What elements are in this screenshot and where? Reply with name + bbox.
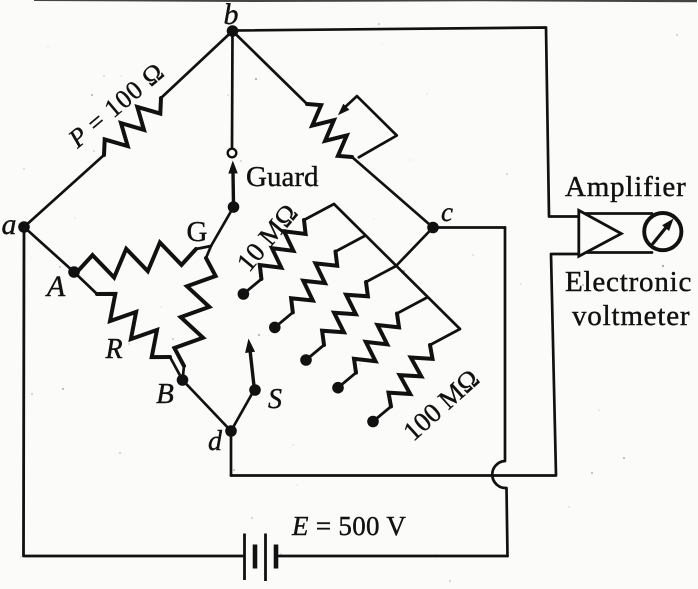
wire b to variable resistor [233,31,308,104]
wire b top run to amplifier input [233,28,578,217]
scan streak at top edge [34,0,697,2]
resistor A-G (guard network) [78,243,196,278]
svg-text:Guard: Guard [246,161,319,193]
return wire d to amplifier lower input [231,254,578,476]
adjustment arrow of variable resistor [343,96,397,157]
standard resistor 4 of bank (10-100 Mohm) [332,298,427,394]
node d [225,425,237,437]
node c [427,222,439,234]
standard resistor 2 of bank (10-100 Mohm) [269,236,366,334]
wire c to bus [396,228,433,267]
bottom wire right of battery [279,555,508,558]
guard wire from b down [231,31,234,148]
guard switch blade arrow [231,172,235,205]
resistor G-B (guard network) [206,246,211,258]
node b [227,25,239,37]
wire guard dot to node G [211,207,234,246]
node A dot [68,266,80,278]
selector switch S blade arrow [250,350,254,386]
node B dot [177,374,189,386]
electronic voltmeter dial [644,213,681,250]
standard resistor 1 of bank (10-100 Mohm) [238,204,334,300]
resistor P (a-b arm) [104,98,161,155]
battery E plates [245,534,277,582]
voltmeter needle [653,225,668,244]
wire a to P resistor [24,155,104,227]
svg-text:P = 100 Ω: P = 100 Ω [62,57,170,154]
svg-text:B: B [156,378,174,410]
svg-text:b: b [224,0,239,31]
battery branch vertical with hop over return wire [492,228,507,557]
guard node dot [228,201,240,213]
guard switch open terminal [228,149,237,158]
amplifier U1 triangle [579,210,622,256]
svg-text:S: S [268,384,282,415]
svg-text:d: d [208,426,223,457]
wire P resistor to b [161,31,233,98]
svg-text:voltmeter: voltmeter [572,300,690,332]
wire d down to return run [230,431,233,476]
svg-text:E = 500 V: E = 500 V [291,511,406,541]
svg-text:a: a [2,208,17,241]
wire c to battery branch [433,226,505,229]
variable resistor (b-c arm) [307,104,352,157]
wire variable resistor to c [352,157,433,228]
bottom wire left of battery and up to a [24,227,243,556]
wire B to d [183,380,232,431]
svg-text:c: c [441,197,453,227]
node a [18,221,30,233]
svg-text:Amplifier: Amplifier [565,171,687,203]
svg-text:A: A [45,270,66,303]
bus wire connecting standard resistor tops to c [334,204,460,345]
wire d to selector S [231,392,253,431]
resistor R (A-B arm) [74,272,97,294]
amplifier to voltmeter connecting lines [579,212,652,215]
wire a to A [24,227,74,272]
standard resistor 5 of bank (10-100 Mohm) [367,345,432,427]
standard resistor 3 of bank (10-100 Mohm) [300,266,396,366]
svg-text:G: G [187,216,208,248]
svg-text:Electronic: Electronic [565,266,692,298]
selector switch S dot [249,384,261,396]
svg-text:R: R [104,334,122,365]
